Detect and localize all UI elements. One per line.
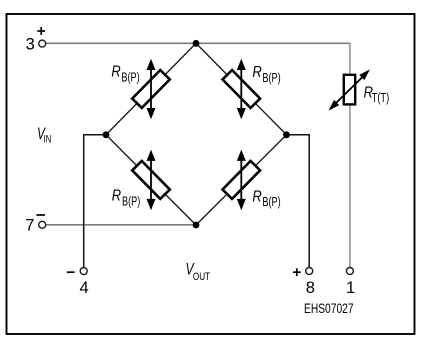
svg-text:R: R — [111, 63, 120, 80]
svg-text:R: R — [252, 188, 261, 205]
svg-text:R: R — [252, 64, 261, 81]
svg-text:B(P): B(P) — [122, 195, 140, 209]
svg-text:7: 7 — [25, 217, 34, 235]
svg-text:B(P): B(P) — [262, 196, 280, 210]
svg-text:EHS07027: EHS07027 — [304, 301, 354, 317]
svg-text:R: R — [112, 187, 121, 204]
svg-text:IN: IN — [44, 133, 52, 146]
svg-text:B(P): B(P) — [121, 71, 139, 85]
svg-text:1: 1 — [346, 279, 355, 297]
svg-text:4: 4 — [80, 279, 89, 297]
svg-text:3: 3 — [26, 36, 35, 54]
svg-text:8: 8 — [306, 279, 315, 297]
svg-text:T(T): T(T) — [372, 92, 390, 106]
svg-text:OUT: OUT — [193, 271, 210, 284]
svg-text:B(P): B(P) — [262, 72, 280, 86]
